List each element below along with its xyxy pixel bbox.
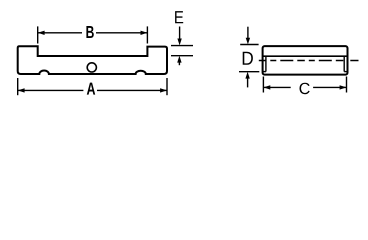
A arrows <box>18 88 25 92</box>
side view: recess line <box>263 55 348 57</box>
dimension C line <box>263 86 290 88</box>
dimension B line <box>38 32 82 34</box>
dimension D upper arrow (down) <box>247 27 249 39</box>
hole <box>87 63 96 72</box>
centerline end dash <box>350 60 358 62</box>
dimension A extension lines <box>17 78 19 95</box>
dimension D lower arrow (up) <box>245 72 249 79</box>
E extension lines <box>171 45 193 47</box>
dimension A line <box>18 89 84 91</box>
side view: outer rectangle <box>263 46 348 75</box>
label C <box>299 83 309 94</box>
dimension E upper arrow (down) <box>179 27 181 40</box>
label B <box>86 26 93 38</box>
D upper tick <box>240 44 258 46</box>
centerline <box>259 60 347 62</box>
D lower tick <box>239 71 259 73</box>
dimension E lower arrow (up) <box>177 56 181 63</box>
label A <box>87 83 95 95</box>
label D <box>243 52 253 65</box>
side view: right slot <box>343 56 345 71</box>
B arrows <box>38 31 45 35</box>
dimension C extension lines <box>262 77 264 93</box>
dimension B extension lines <box>37 26 39 43</box>
front view: bar outline <box>18 46 167 74</box>
side view: left slot <box>265 56 267 71</box>
label E <box>175 11 183 23</box>
C arrows <box>263 85 270 89</box>
